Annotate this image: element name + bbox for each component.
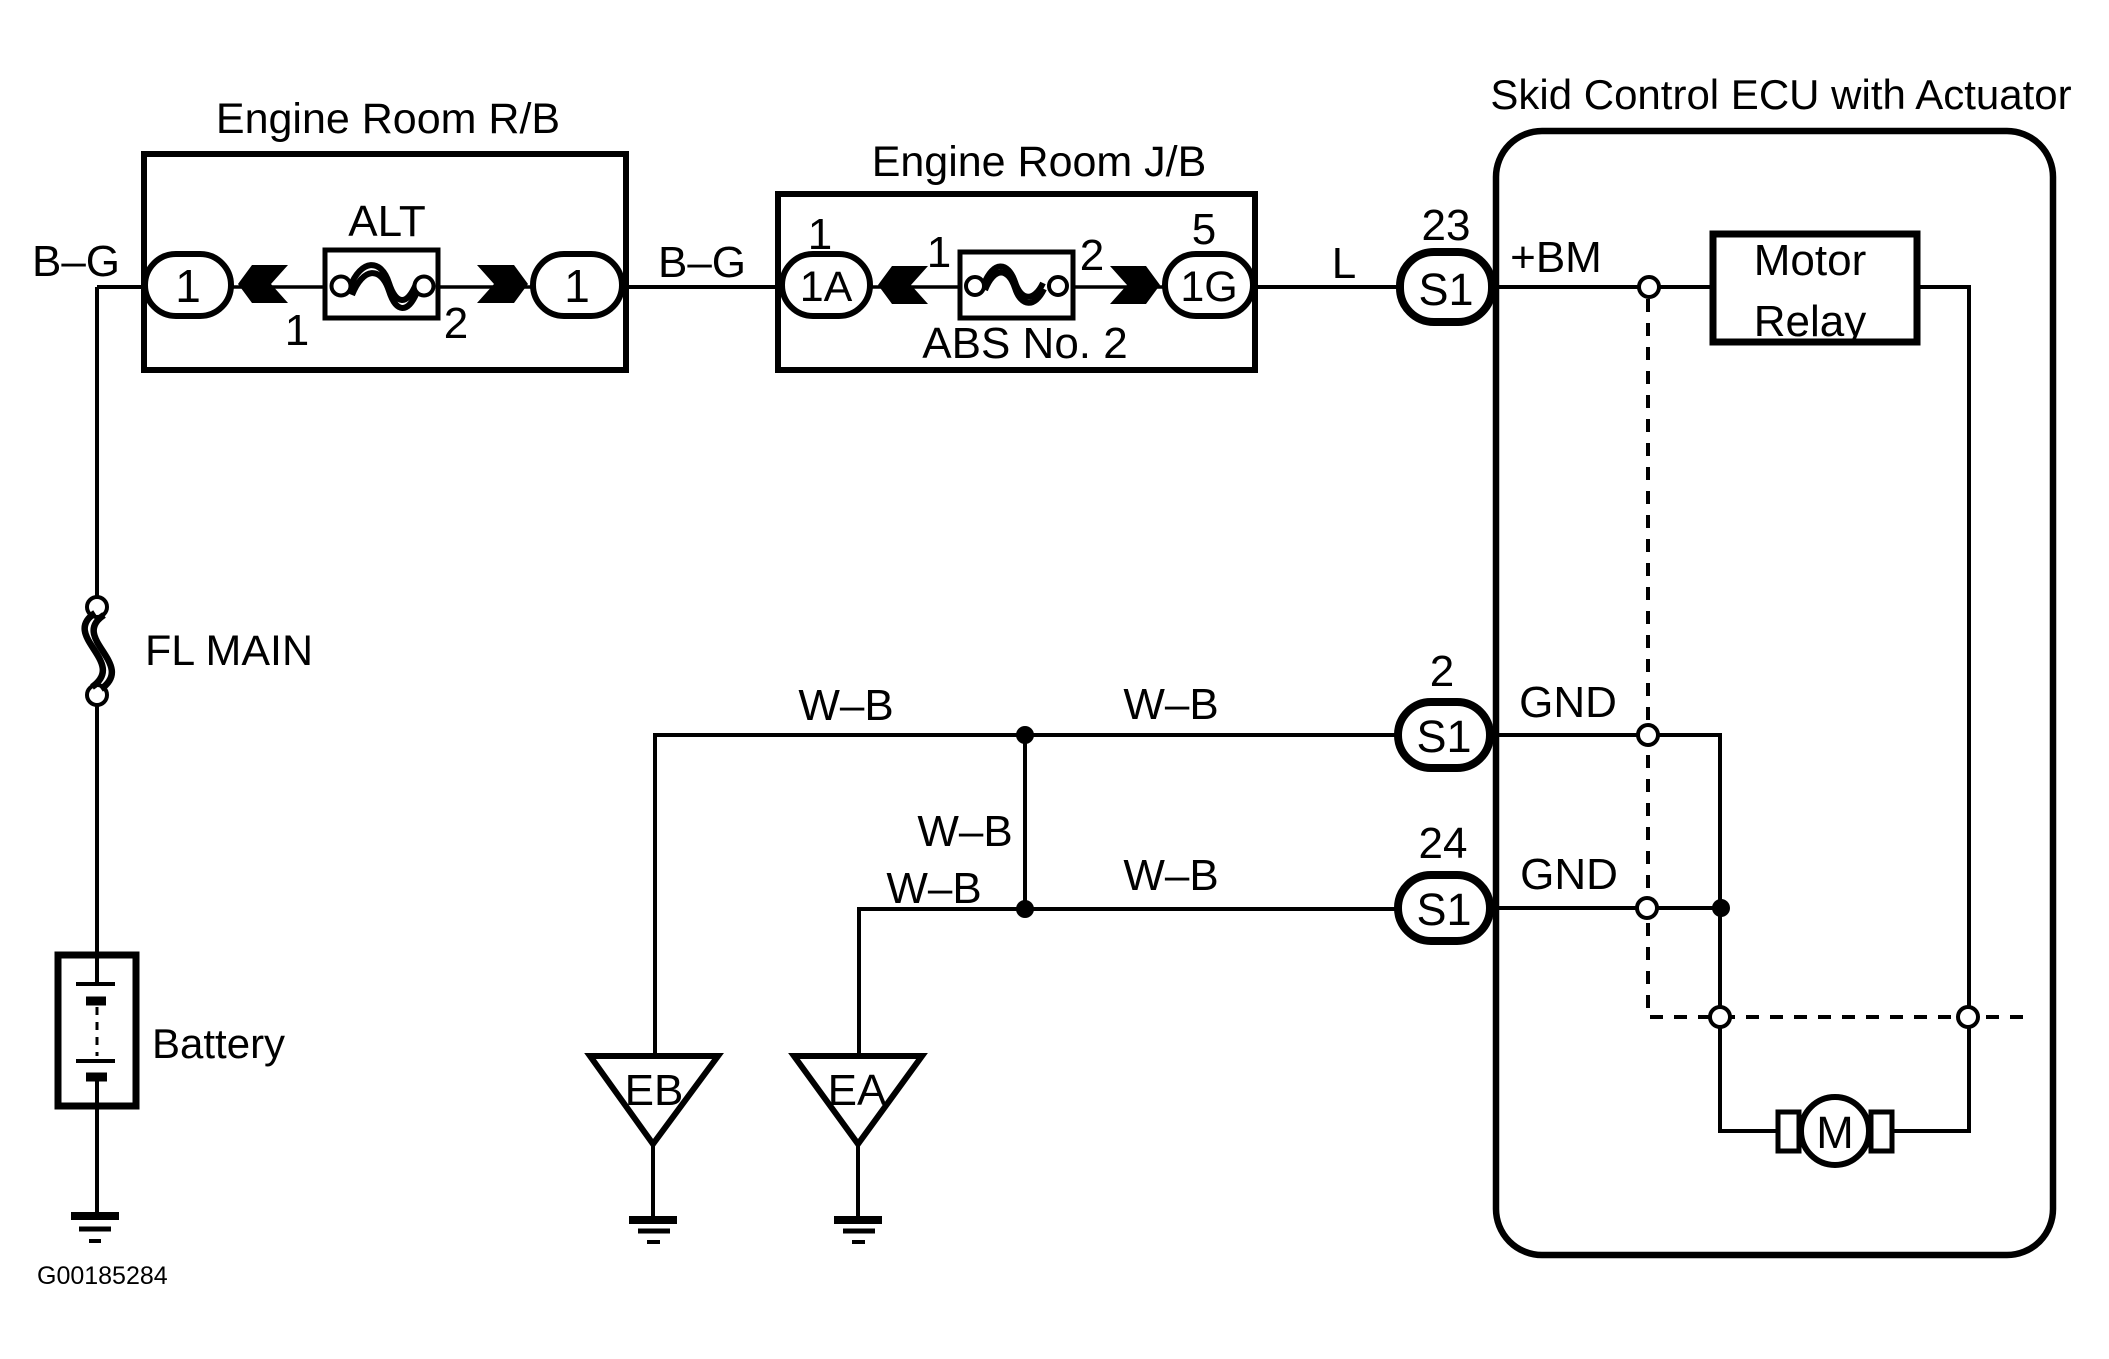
svg-text:1: 1 <box>285 306 309 355</box>
svg-text:Skid Control ECU with Actuator: Skid Control ECU with Actuator <box>1490 71 2071 118</box>
Engine Room R/B box <box>144 154 626 370</box>
wire EA triangle to ground <box>856 1140 860 1218</box>
svg-text:1A: 1A <box>800 263 853 311</box>
wire GND pin24 <box>1492 906 1720 910</box>
svg-text:1: 1 <box>564 260 590 312</box>
svg-text:B–G: B–G <box>658 238 746 287</box>
svg-text:2: 2 <box>1430 647 1454 696</box>
svg-text:FL MAIN: FL MAIN <box>145 627 313 675</box>
svg-text:1: 1 <box>808 210 832 259</box>
connector 1G <box>1165 254 1253 316</box>
connector S1 pin 2 <box>1398 702 1490 768</box>
svg-text:Motor: Motor <box>1754 236 1866 285</box>
node +BM open circle <box>1639 277 1659 297</box>
node dashed-left open circle <box>1710 1007 1730 1027</box>
ground (battery) <box>71 1212 119 1220</box>
connector S1 pin 23 <box>1400 252 1492 322</box>
ground point EB <box>590 1056 718 1144</box>
wire inside R/B through ALT <box>230 285 535 289</box>
connector 1 (R/B left) <box>145 254 231 316</box>
svg-text:ABS No. 2: ABS No. 2 <box>922 319 1127 368</box>
node dashed-right open circle <box>1958 1007 1978 1027</box>
svg-text:S1: S1 <box>1418 264 1473 315</box>
junction dot (W-B upper) <box>1016 726 1034 744</box>
Skid Control ECU with Actuator enclosure <box>1496 131 2053 1255</box>
svg-text:GND: GND <box>1519 678 1617 727</box>
ground point EA <box>794 1056 922 1144</box>
junction dot (GND 24 / motor) <box>1712 899 1730 917</box>
svg-text:24: 24 <box>1419 819 1468 868</box>
wire B-G between R/B and J/B <box>626 285 780 289</box>
connector 1 (R/B right) <box>533 254 622 316</box>
svg-text:GND: GND <box>1520 850 1618 899</box>
node GND24 open circle <box>1637 898 1657 918</box>
wire inside J/B through ABS No.2 <box>868 285 1165 289</box>
wire GND pin2 to inner corner <box>1492 735 1778 1131</box>
svg-text:1: 1 <box>927 228 951 277</box>
wire W-B junction riser <box>1023 735 1027 909</box>
svg-text:W–B: W–B <box>798 681 893 730</box>
splice arrow left (R/B) <box>238 265 288 303</box>
svg-text:S1: S1 <box>1416 711 1471 762</box>
connector S1 pin 24 <box>1398 875 1490 941</box>
wire W-B upper run to S1 pin2 <box>655 735 1400 1058</box>
wire +BM from S1 to Motor Relay <box>1492 285 1713 289</box>
ground (EB) <box>629 1216 677 1224</box>
svg-text:L: L <box>1332 239 1356 288</box>
svg-text:W–B: W–B <box>1123 680 1218 729</box>
svg-text:Engine Room J/B: Engine Room J/B <box>872 138 1207 186</box>
svg-text:ALT: ALT <box>348 197 425 246</box>
svg-text:1: 1 <box>175 260 201 312</box>
svg-text:W–B: W–B <box>917 807 1012 856</box>
svg-text:W–B: W–B <box>1123 851 1218 900</box>
fusible link FL MAIN <box>87 597 107 617</box>
svg-text:EA: EA <box>828 1066 887 1115</box>
svg-text:Battery: Battery <box>152 1020 285 1067</box>
svg-text:5: 5 <box>1192 205 1216 254</box>
svg-text:Relay: Relay <box>1754 297 1867 346</box>
svg-text:B–G: B–G <box>32 237 120 286</box>
wire below FL MAIN to battery <box>95 703 99 955</box>
svg-text:EB: EB <box>625 1066 684 1115</box>
wire L from J/B to S1 pin 23 <box>1256 285 1403 289</box>
svg-text:23: 23 <box>1422 201 1471 250</box>
battery <box>58 955 136 1106</box>
svg-text:S1: S1 <box>1416 884 1471 935</box>
wire EB triangle to ground <box>651 1140 655 1218</box>
splice arrow left (J/B) <box>878 266 928 304</box>
Motor Relay box <box>1713 234 1917 342</box>
junction dot (W-B lower) <box>1016 900 1034 918</box>
wire battery riser vertical <box>95 287 99 599</box>
motor M <box>1778 1112 1799 1151</box>
connector 1A <box>782 254 870 316</box>
wire B-G from battery riser to Engine Room R/B <box>97 285 145 289</box>
node GND2 open circle <box>1638 725 1658 745</box>
svg-text:+BM: +BM <box>1510 233 1602 282</box>
svg-text:W–B: W–B <box>886 864 981 913</box>
ground (EA) <box>834 1216 882 1224</box>
svg-text:G00185284: G00185284 <box>37 1262 168 1290</box>
wire from Motor Relay right side down to motor <box>1892 287 1969 1131</box>
Engine Room J/B box <box>778 194 1255 370</box>
svg-text:Engine Room R/B: Engine Room R/B <box>216 95 560 143</box>
dashed control line vertical and horizontal <box>1648 299 2033 1017</box>
splice arrow right (J/B) <box>1110 266 1160 304</box>
fuse ABS No. 2 <box>960 252 1073 318</box>
wire W-B lower run to S1 pin24 <box>859 909 1400 1058</box>
splice arrow right (R/B) <box>477 265 528 303</box>
fuse ALT <box>325 250 438 318</box>
svg-text:2: 2 <box>1080 231 1104 280</box>
svg-text:2: 2 <box>444 299 468 348</box>
svg-text:1G: 1G <box>1180 263 1237 311</box>
svg-text:M: M <box>1816 1107 1854 1158</box>
